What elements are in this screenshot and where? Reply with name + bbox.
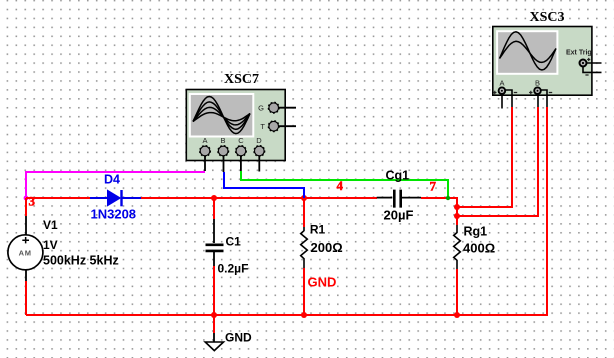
oscilloscope XSC7 [186, 72, 285, 161]
svg-text:Ext Trig: Ext Trig [566, 50, 592, 57]
svg-text:D: D [256, 136, 262, 145]
resistor Rg1 400ohm [454, 225, 495, 270]
svg-text:20µF: 20µF [384, 208, 414, 223]
junction dot bus-R1 bottom [301, 312, 307, 318]
svg-text:B: B [220, 136, 225, 145]
svg-text:V1: V1 [43, 218, 58, 232]
wire red top bus node 3 to diode anode [26, 197, 90, 199]
svg-text:3: 3 [29, 194, 36, 209]
svg-text:GND: GND [225, 331, 252, 345]
wire red Cg1 right lead to node 7 corner [421, 198, 457, 225]
wire red vertical V1 top [25, 198, 27, 216]
wire red R1 bottom to bus [303, 268, 305, 315]
diode D4 1N3208 [90, 173, 141, 222]
ground symbol GND [205, 331, 252, 351]
capacitor C1 0.2uF [206, 219, 249, 276]
svg-text:400Ω: 400Ω [463, 241, 495, 256]
svg-text:G: G [258, 104, 264, 113]
wire red vertical bus to C1 [213, 198, 215, 219]
svg-text:GND: GND [308, 275, 337, 290]
svg-text:XSC3: XSC3 [529, 10, 564, 25]
svg-text:C: C [238, 136, 244, 145]
svg-text:T: T [260, 122, 265, 131]
wire red ground stub below bus [213, 315, 215, 333]
wire red diode cathode to R1 top [141, 197, 377, 199]
svg-text:0.2µF: 0.2µF [218, 262, 249, 276]
XSC3 Ext Trig terminal [566, 50, 602, 76]
junction dot bus-C1 bottom [211, 312, 217, 318]
svg-text:Cg1: Cg1 [386, 169, 410, 183]
oscilloscope XSC3 [493, 10, 592, 95]
wire red C1 bottom to bus [213, 266, 215, 315]
svg-text:XSC7: XSC7 [224, 72, 259, 87]
junction dot bus-C1 [211, 195, 217, 201]
AM source V1 [8, 216, 119, 281]
svg-text:A: A [499, 79, 504, 88]
svg-text:1V: 1V [43, 238, 58, 252]
wire magenta net from XSC7 channel A to node 3 [26, 172, 205, 198]
svg-text:A: A [202, 136, 207, 145]
svg-text:500kHz 5kHz: 500kHz 5kHz [43, 254, 119, 268]
svg-text:B: B [535, 79, 540, 88]
XSC3 channel B terminal [529, 79, 552, 108]
svg-text:AM: AM [19, 248, 32, 257]
svg-text:4: 4 [337, 178, 344, 193]
svg-text:R1: R1 [310, 223, 326, 237]
XSC3 channel A terminal [493, 79, 517, 109]
svg-text:200Ω: 200Ω [311, 240, 343, 255]
wire red Rg1 bottom to bus [456, 269, 458, 315]
wire red vertical bus to R1 [303, 198, 305, 227]
XSC3 waveform curves [500, 32, 557, 70]
wire red XSC3 A- down-left to node 7 [457, 107, 512, 207]
svg-text:D4: D4 [104, 173, 120, 187]
capacitor Cg1 20uF [377, 169, 421, 223]
svg-text:1N3208: 1N3208 [91, 207, 137, 222]
wire red XSC3 B+ down-left to node 7 [457, 107, 538, 216]
junction dot node7 A tap [454, 204, 460, 210]
XSC7 terminals A B C D G T [200, 102, 296, 172]
svg-text:Rg1: Rg1 [464, 225, 488, 239]
wire red V1 bottom to bus [25, 281, 27, 315]
resistor R1 200ohm [301, 223, 343, 290]
junction dot green node 7 [446, 196, 450, 200]
svg-text:7: 7 [430, 179, 437, 194]
XSC7 waveform curves [193, 97, 250, 134]
node 3 junction dot [24, 196, 29, 201]
junction dot node7 B tap [454, 213, 460, 219]
junction dot bus-R1 [301, 195, 307, 201]
wire blue net XSC7 channel B to bus [224, 172, 304, 198]
junction dot bus-Rg1 bottom [454, 312, 460, 318]
svg-text:C1: C1 [226, 235, 242, 249]
wire green net 4 XSC7 channel C to node 7 [241, 171, 448, 198]
wire red XSC3 B- down to ground bus [26, 107, 547, 315]
